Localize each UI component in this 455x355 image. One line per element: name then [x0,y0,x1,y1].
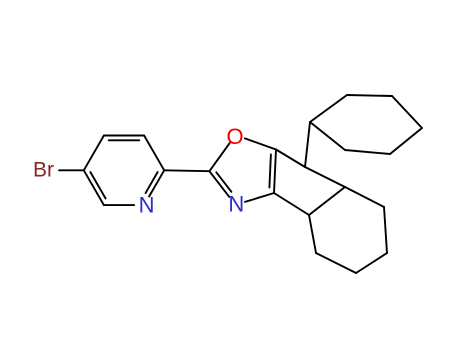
bond D-E upper chair [392,96,422,128]
bond N1-C6' pyridine [104,204,134,206]
bond Br-C5' pyridine [59,169,84,171]
svg-text:N: N [139,193,155,218]
bond C-D upper chair [347,95,392,96]
double bond C6'=C5' pyridine [84,170,104,205]
svg-text:O: O [227,124,244,149]
bond W4-V1 lower chair [309,215,316,253]
svg-text:Br: Br [33,159,54,182]
bond pyridine C2'-oxazole C2 [164,169,209,172]
bond G2-B upper chair [310,122,345,150]
svg-text:N: N [228,191,244,216]
bond A-V2 [305,167,345,187]
bond C4-N3 oxazole [245,193,274,202]
bond C5'-C4' pyridine [84,136,104,171]
double bond C5=C4 oxazole [274,150,276,194]
bond W2-W3 lower chair [356,253,387,273]
bond O1-C5 oxazole [245,138,276,149]
bond W1-W2 lower chair [384,207,387,253]
bond F-G2 upper chair [345,150,390,154]
double bond C2'=N1 pyridine [149,170,164,196]
bond C5-A [276,150,305,168]
bond E-F upper chair [390,128,422,154]
bond W3-W4 lower chair [316,253,356,273]
bond C4-V1 [274,193,309,215]
bond A-B [305,122,310,167]
bond V2-W1 lower chair [345,187,384,207]
double bond C2=N3 oxazole [209,171,229,197]
bond C2-O1 oxazole [209,143,229,171]
double bond C4'=C3' pyridine [104,135,144,137]
bond V1-V2 [309,187,345,215]
bond C3'-C2' pyridine [144,136,164,171]
bond B-C upper chair [310,95,347,122]
